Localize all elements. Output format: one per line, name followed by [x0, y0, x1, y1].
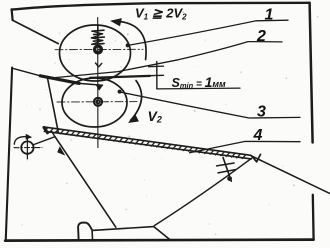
- frame left border upper stub: [12, 9, 13, 20]
- arrow V2 rotation arc: [131, 81, 142, 121]
- roller 1 (top): [60, 25, 131, 81]
- roller 2 horizontal centerline: [57, 101, 137, 103]
- chute upper notch edge: [13, 20, 59, 43]
- roller 2 hub: [94, 98, 102, 106]
- nip gap line: [90, 76, 150, 78]
- leader 1 dot: [126, 43, 130, 47]
- frame left border: [6, 68, 12, 239]
- bar bottom edge: [45, 131, 252, 159]
- motion arrowhead: [57, 146, 65, 155]
- crank circle: [21, 141, 33, 153]
- svg-text:3: 3: [257, 104, 266, 121]
- chute steep wall: [48, 79, 59, 133]
- bar hatching: [44, 127, 246, 158]
- tray right slant: [154, 227, 170, 240]
- frame top border: [12, 3, 310, 10]
- roller 1 horizontal centerline: [55, 48, 143, 50]
- leader 2: [55, 42, 282, 78]
- sheet thick segment: [40, 76, 79, 84]
- tray top edge: [92, 227, 154, 231]
- nip arrow blob: [96, 85, 103, 90]
- svg-text:4: 4: [253, 127, 263, 144]
- spring: [92, 25, 105, 46]
- bar left end cap: [44, 128, 48, 133]
- vertical centerline: [97, 18, 99, 148]
- frame bottom border: [5, 240, 313, 241]
- leader 3 dot: [118, 90, 122, 94]
- svg-text:1: 1: [265, 7, 274, 24]
- arrow V1 rotation arc: [114, 21, 147, 59]
- roller 2 (bottom): [62, 78, 127, 127]
- leader 3: [120, 92, 300, 118]
- centerline tick: [96, 63, 102, 67]
- bar top edge: [44, 127, 251, 155]
- through-frame diagonal: [251, 156, 330, 194]
- svg-text:V1 ≧ 2V2: V1 ≧ 2V2: [135, 6, 187, 22]
- tray left edge: [91, 231, 93, 240]
- crank rotation arrow: [14, 137, 28, 145]
- leader 4: [190, 141, 301, 152]
- frame right border upper: [310, 3, 313, 143]
- frame right border lower: [312, 195, 315, 239]
- leader 1: [128, 20, 288, 45]
- crank link: [34, 137, 55, 145]
- dimension S upper tick: [149, 65, 164, 68]
- triangle right side: [155, 158, 252, 225]
- crank vertical centerline: [26, 137, 28, 159]
- dimension S underline/leader: [157, 87, 240, 90]
- chute lower notch edge: [12, 68, 40, 76]
- roller 1 hub: [94, 46, 102, 54]
- adjuster mark: [223, 157, 231, 181]
- svg-text:2: 2: [256, 28, 266, 45]
- tray lip: [78, 223, 92, 240]
- dimension S vertical: [156, 62, 158, 89]
- chevron near bar end: [252, 154, 261, 161]
- swing diagonal to tray: [55, 137, 116, 228]
- sheet thin tail: [79, 83, 102, 85]
- crank horizontal centerline: [14, 147, 42, 149]
- bar end stub: [52, 132, 55, 137]
